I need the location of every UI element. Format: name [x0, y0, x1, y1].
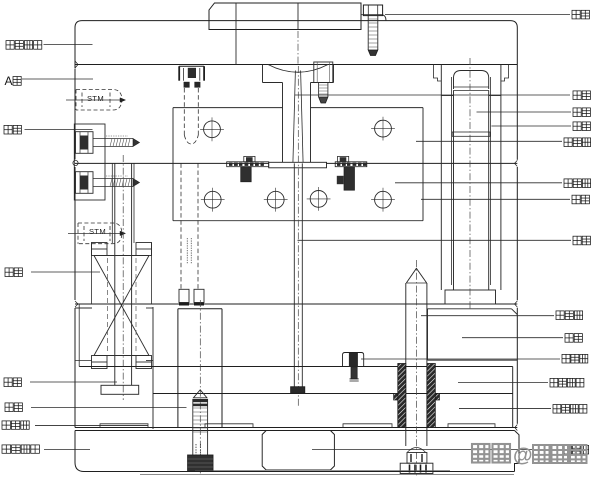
svg-text:M: M: [97, 94, 103, 103]
svg-text:@: @: [513, 445, 533, 467]
svg-text:A: A: [5, 74, 13, 88]
svg-text:M: M: [99, 227, 105, 236]
